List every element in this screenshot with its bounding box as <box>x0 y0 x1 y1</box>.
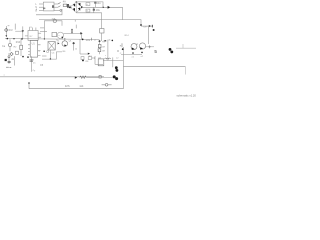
bridge rectifier BR1 frame <box>70 2 82 13</box>
node small <box>22 56 24 58</box>
svg-text:schematic v1.20: schematic v1.20 <box>177 93 197 97</box>
wire osc output <box>64 32 81 34</box>
relay pin left <box>25 35 28 37</box>
node rail q1 <box>64 38 65 39</box>
wire feedback right <box>101 76 112 78</box>
node Q3 emitter <box>141 52 143 54</box>
svg-text:2R2: 2R2 <box>86 39 91 42</box>
diode D4 <box>73 8 75 11</box>
node bottom stub <box>28 82 30 84</box>
cap branch 1 wire2 <box>13 56 15 65</box>
wire diode row <box>141 25 152 27</box>
wire down from diode row <box>148 26 150 44</box>
wire under opto <box>9 47 11 52</box>
fuse circle bottom <box>105 84 108 87</box>
diode D7 <box>10 52 13 55</box>
LED pair2 lower <box>115 77 118 80</box>
cap C plates <box>8 62 11 63</box>
svg-text:1M: 1M <box>102 50 105 52</box>
cap branch 2 wire <box>30 56 32 72</box>
wire AC line L <box>39 3 43 5</box>
dash far left <box>6 66 9 68</box>
inductor squiggle <box>105 58 111 59</box>
wire U2 pin down <box>61 38 63 39</box>
diode D6 <box>22 30 24 32</box>
output frame top <box>123 66 185 68</box>
wire earth to contact <box>54 10 60 12</box>
svg-text:5: 5 <box>154 49 157 54</box>
diode D1 <box>5 28 9 32</box>
wire to bridge <box>69 5 72 7</box>
wire return rail upper <box>36 9 62 15</box>
node rail left <box>7 38 9 40</box>
tick below neutral rail <box>74 20 76 22</box>
wire feedback <box>86 76 99 78</box>
capacitor C2 label box <box>86 3 90 6</box>
diode D9 <box>149 25 151 27</box>
node rail x44 <box>44 38 45 39</box>
node rail junction <box>103 7 104 8</box>
current transformer circle <box>53 19 56 22</box>
svg-text:4r7k: 4r7k <box>65 85 70 88</box>
svg-text:RY: RY <box>30 36 34 38</box>
earth mark inside filter <box>44 7 45 9</box>
cap branch 1 wire <box>8 58 10 64</box>
small box row a <box>81 57 84 60</box>
wire drop to lower rail <box>122 7 124 19</box>
transformer T1 core lines <box>49 42 55 49</box>
capacitor C2 <box>94 2 96 3</box>
node Q1 drain <box>73 42 75 44</box>
capacitor inside filter <box>53 5 54 8</box>
LED pair upper <box>115 66 118 69</box>
transistor Q3 arrow <box>140 47 143 50</box>
resistor R startup 1 <box>98 45 101 48</box>
node rail 2 <box>13 38 14 39</box>
node rail snub <box>82 39 84 41</box>
wire inductor drop <box>112 57 114 67</box>
transformer T1 box <box>48 42 55 51</box>
wire AC line N <box>39 6 43 8</box>
node secondary <box>122 48 124 50</box>
bridge center lines <box>75 2 77 12</box>
wire bridge top rail <box>76 2 103 7</box>
svg-text:u: u <box>58 35 59 37</box>
tick near input <box>36 9 38 11</box>
dash below <box>10 67 12 69</box>
resistor R vertical <box>71 29 72 33</box>
sense wire vertical <box>79 39 81 54</box>
fuse leads bottom <box>102 84 112 86</box>
dark dash left of vertical <box>104 40 106 41</box>
LED pair lower <box>116 69 119 72</box>
node top right <box>140 24 142 26</box>
blob lower <box>82 60 84 62</box>
comp right of Q3 <box>148 45 151 48</box>
node bridge top <box>76 1 77 2</box>
relay pin right 1 <box>38 32 41 34</box>
small comp on rail <box>91 38 93 41</box>
stub above node <box>121 43 123 47</box>
diode D6 wire <box>22 26 24 39</box>
wire above opto <box>9 39 11 43</box>
capacitor C3 label box <box>86 9 90 12</box>
relay pin right 2 <box>38 36 41 38</box>
wire Q3 to comp <box>146 46 149 48</box>
capacitor C3 <box>93 9 95 10</box>
diode D5 <box>78 8 80 11</box>
controller box small <box>52 32 57 36</box>
oscillator loop wire <box>44 21 62 39</box>
wire feedback upper <box>40 27 44 29</box>
dark dash left <box>43 51 45 52</box>
transistor Q2 arrow <box>132 48 135 51</box>
resistor zigzag <box>80 76 87 78</box>
wire snubber down <box>101 33 103 41</box>
wire AC earth <box>39 9 43 11</box>
wire feedback lower <box>40 30 47 32</box>
transistor Q1 circle <box>62 41 68 47</box>
node bridge right <box>81 6 83 8</box>
cap branch 2 node <box>27 56 29 58</box>
ground rail secondary <box>0 76 104 78</box>
diode D3 <box>78 3 80 6</box>
wire gate drop <box>81 33 83 39</box>
diode D1 wire <box>5 26 7 37</box>
fuse F1 <box>63 4 67 6</box>
wire R11 down <box>20 50 22 57</box>
opto circle left <box>8 43 11 46</box>
primary ground rail <box>5 38 100 41</box>
diode D2 <box>73 4 75 7</box>
node startup <box>99 40 101 42</box>
node D1 anode <box>5 35 7 37</box>
wire comp to zener <box>151 46 154 48</box>
svg-text:10u: 10u <box>96 1 101 5</box>
faint circle T1 pin <box>47 51 49 53</box>
LED pair2 upper <box>113 75 116 78</box>
output LED pair 2 <box>170 51 173 54</box>
diode D9 cathode <box>151 25 153 28</box>
svg-text:1n4: 1n4 <box>79 85 84 88</box>
resistor R11 <box>20 45 23 49</box>
wire output faint <box>176 47 196 49</box>
wire output vertical faint <box>182 44 184 48</box>
wire filter output lower <box>54 6 58 8</box>
wire bridge bottom rail <box>76 13 101 29</box>
diode on feedback line <box>75 76 77 78</box>
transistor Q3 circle <box>139 43 145 49</box>
comp on rail <box>99 76 101 78</box>
wire cap C3 <box>93 7 95 13</box>
aux wire vertical <box>94 56 96 64</box>
svg-text:Q: Q <box>136 44 138 46</box>
svg-text:4A: 4A <box>63 0 66 3</box>
wire main neutral rail <box>39 20 141 25</box>
IC pins right <box>38 45 41 56</box>
sense wire horizontal <box>80 53 89 55</box>
svg-text:10u: 10u <box>96 8 101 12</box>
wire lower left 1 <box>42 55 47 57</box>
transistor Q2 circle <box>131 44 137 50</box>
switch contact circle <box>60 10 62 12</box>
bottom rail <box>29 88 123 90</box>
bottom stub <box>28 83 30 89</box>
faint dot <box>117 50 118 51</box>
oscillator circle U2 <box>57 32 63 38</box>
wire small stub <box>75 25 77 29</box>
switch SW1 <box>58 3 61 8</box>
IC U1 box <box>30 40 37 57</box>
secondary main vertical <box>122 47 124 89</box>
wire cap C2 <box>94 2 96 7</box>
wire mid vertical <box>107 40 109 61</box>
transistor Q1 arrow <box>64 44 66 46</box>
arrow near T1 <box>58 42 60 44</box>
svg-text:R10: R10 <box>16 41 21 44</box>
resistor R11 wire <box>20 39 22 45</box>
svg-text:1M: 1M <box>102 46 105 48</box>
wire lower left 2 <box>42 52 62 59</box>
node mid <box>112 40 114 42</box>
relay box upper <box>28 31 38 41</box>
wire emitter rail <box>121 53 142 55</box>
cap branch 2 plates <box>30 60 33 61</box>
wire bridge left node <box>69 6 72 8</box>
tick above D1 <box>8 25 10 27</box>
wire link <box>15 30 23 32</box>
snubber box R-C <box>100 29 104 34</box>
node on gnd rail <box>21 38 23 40</box>
output LED pair <box>169 48 172 51</box>
node T1 bottom <box>50 58 52 60</box>
node Q2 emitter <box>132 52 134 54</box>
wire Q1 collector up <box>64 39 66 41</box>
U2 pin dot <box>62 37 64 39</box>
relay pins up <box>29 28 36 31</box>
node diode row end <box>153 29 155 31</box>
node bridge left <box>69 7 71 9</box>
svg-text:E: E <box>35 8 37 12</box>
wire T1 bottom <box>49 50 51 59</box>
gate arrow <box>80 32 82 34</box>
box right of D7 <box>16 51 19 54</box>
aux wire horizontal <box>95 63 103 65</box>
wire startup chain <box>99 41 101 54</box>
wire Q1 drain <box>73 43 75 50</box>
polarized arrow on positive rail <box>108 6 111 9</box>
cap branch 1 blob <box>5 59 7 61</box>
output frame right <box>185 67 187 75</box>
cap branch 1 circle <box>8 56 10 58</box>
resistor R startup 2 <box>98 49 101 52</box>
wire filter output upper <box>54 3 58 5</box>
cap branch x15 <box>14 24 16 30</box>
small box row b <box>88 57 91 60</box>
wire mid horizontal <box>103 60 123 62</box>
wire D7 <box>8 53 10 55</box>
line filter FL1 <box>43 2 54 11</box>
capacitor C1 <box>67 4 68 8</box>
svg-text:c: c <box>105 55 106 57</box>
feedback box <box>98 59 104 66</box>
wire positive rail <box>82 6 123 8</box>
IC pins left <box>28 45 30 55</box>
sense blob <box>88 53 90 55</box>
